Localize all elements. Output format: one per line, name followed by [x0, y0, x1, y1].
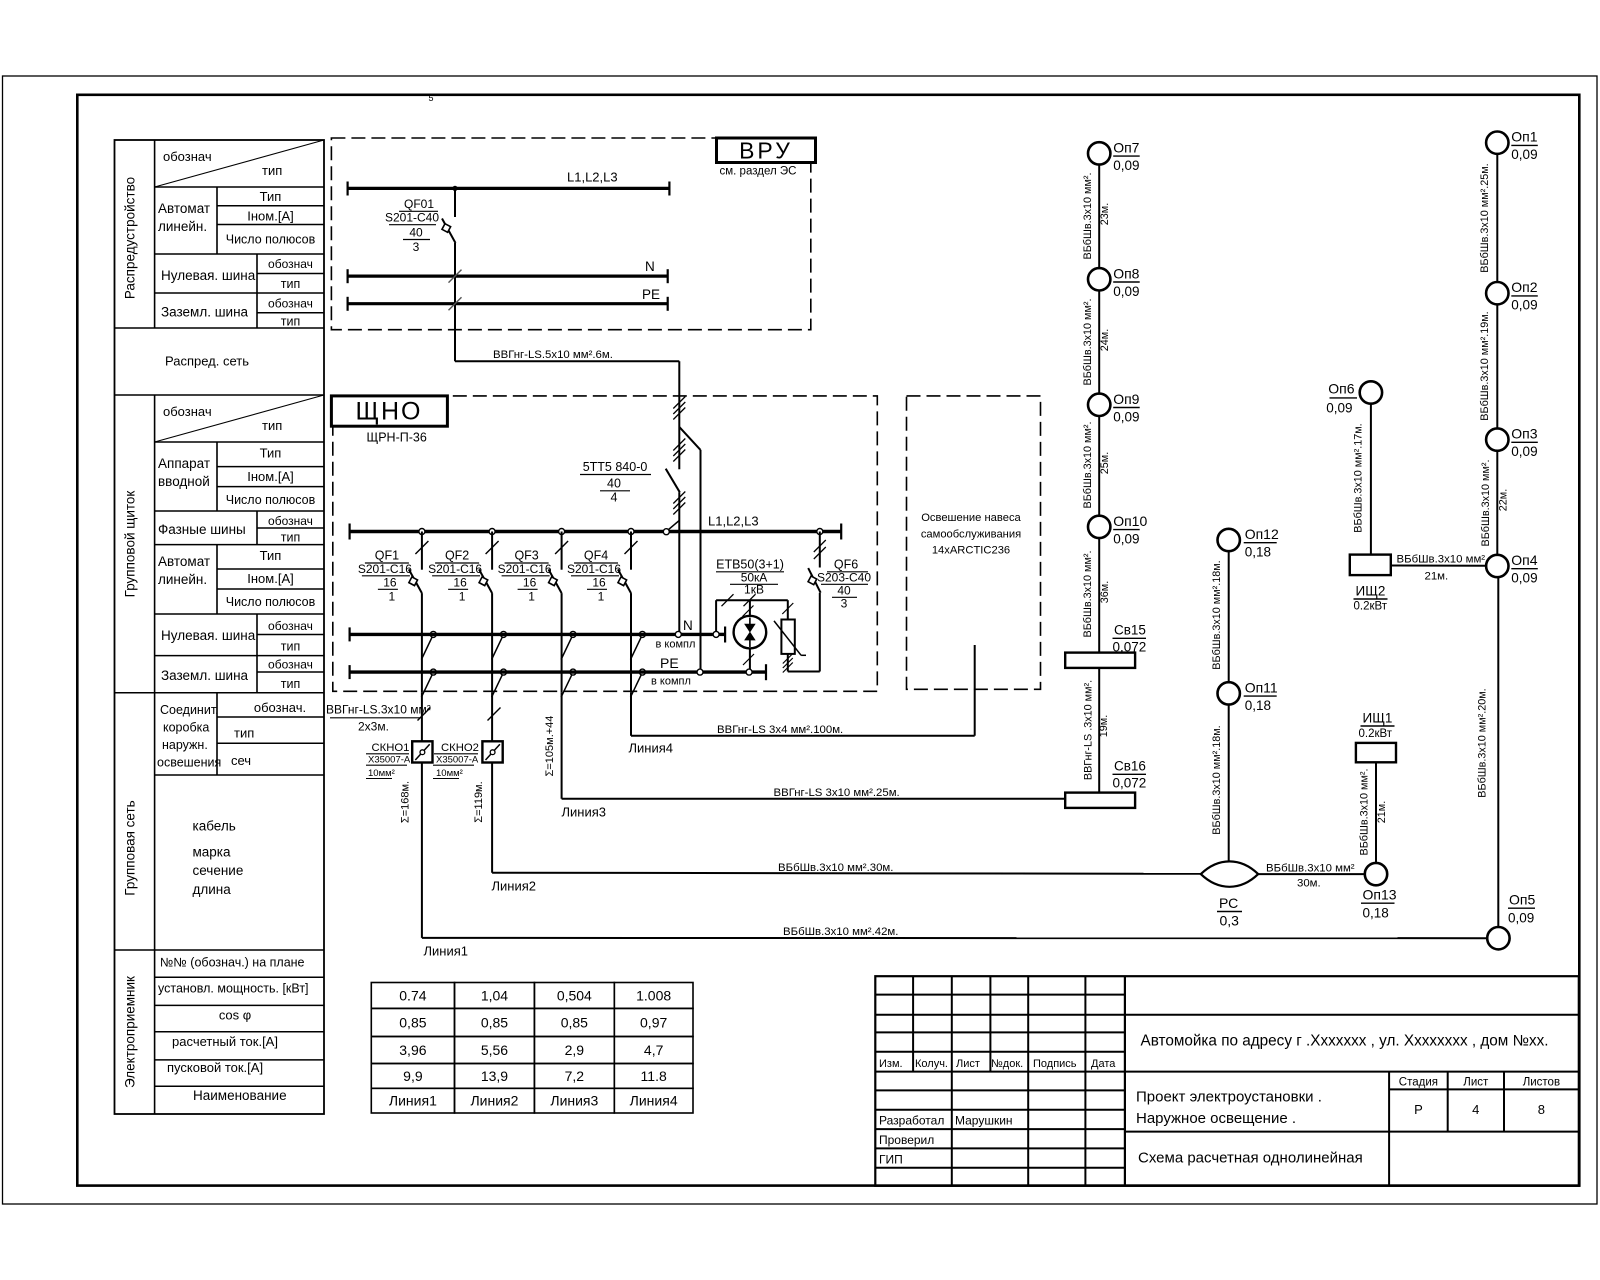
svg-text:наружн.: наружн. — [162, 738, 208, 752]
svg-text:0,09: 0,09 — [1326, 401, 1352, 416]
N tap diagonal QF4 — [631, 637, 642, 660]
breaker QF3 contact — [549, 569, 562, 593]
N tap node QF1 — [430, 631, 436, 637]
svg-text:0,072: 0,072 — [1113, 640, 1147, 655]
svg-text:обознач.: обознач. — [254, 700, 306, 715]
svg-text:QF01: QF01 — [404, 197, 434, 211]
svg-text:Линия4: Линия4 — [629, 741, 674, 756]
breaker QF01 wire upper — [454, 188, 456, 217]
svg-text:обознач: обознач — [268, 514, 313, 528]
wire PC to Op13 — [1258, 873, 1366, 875]
canopy lighting dashed box — [907, 396, 1041, 689]
varistor stem lower — [787, 654, 789, 672]
svg-text:40: 40 — [409, 226, 423, 240]
svg-text:тип: тип — [281, 277, 300, 291]
svg-text:ГИП: ГИП — [879, 1153, 903, 1167]
svg-text:0,504: 0,504 — [557, 987, 592, 1003]
chain A wires — [1098, 165, 1100, 269]
svg-text:0,3: 0,3 — [1220, 913, 1240, 929]
svg-text:Тип: Тип — [260, 189, 282, 204]
lamp Оп10 — [1088, 516, 1110, 538]
svg-text:СКНО2: СКНО2 — [441, 742, 479, 754]
wire Op6 to ISCH2 — [1370, 404, 1372, 555]
svg-text:30м.: 30м. — [1297, 878, 1321, 890]
N tap diagonal QF3 — [561, 637, 572, 660]
svg-text:тип: тип — [262, 418, 282, 433]
svg-text:обознач: обознач — [163, 149, 212, 164]
breaker QF6 wire lower — [819, 593, 821, 672]
svg-text:ВБбШв.3х10 мм².30м.: ВБбШв.3х10 мм².30м. — [778, 862, 893, 874]
svg-text:освешения: освешения — [157, 756, 221, 770]
svg-text:16: 16 — [592, 576, 606, 590]
junction box SKNO1 — [412, 741, 432, 762]
load values table — [371, 983, 454, 1009]
svg-text:Проверил: Проверил — [879, 1133, 934, 1147]
bus junction node 5TT5 — [663, 529, 669, 535]
svg-text:40: 40 — [607, 477, 621, 491]
varistor diagonal — [774, 621, 801, 655]
svg-text:ВВГнг-LS 3х4 мм².100м.: ВВГнг-LS 3х4 мм².100м. — [717, 724, 843, 736]
svg-text:ВБбШв.3х10 мм².: ВБбШв.3х10 мм². — [1082, 173, 1094, 260]
svg-text:Наименование: Наименование — [193, 1088, 287, 1103]
spark gap PE junction node — [746, 669, 752, 675]
svg-text:1: 1 — [598, 590, 605, 604]
breaker QF3 wire upper — [561, 532, 563, 570]
PE riser wire — [700, 450, 702, 672]
lamp Оп2 — [1486, 282, 1508, 304]
breaker QF1 contact — [409, 569, 422, 593]
svg-text:ETB50(3+1): ETB50(3+1) — [716, 558, 784, 572]
PE tap diagonal QF2 — [492, 674, 503, 697]
svg-text:ВБбШв.3х10 мм².19м.: ВБбШв.3х10 мм².19м. — [1479, 311, 1491, 420]
svg-text:Изм.: Изм. — [879, 1058, 903, 1070]
svg-text:Нулевая. шина: Нулевая. шина — [161, 268, 256, 283]
spark gap stem upper — [749, 600, 751, 616]
PE tap node QF3 — [570, 669, 576, 675]
svg-text:ВВГнг-LS .3х10 мм².: ВВГнг-LS .3х10 мм². — [1083, 680, 1095, 780]
svg-text:Св16: Св16 — [1114, 759, 1146, 774]
lamp Оп1 — [1486, 132, 1508, 154]
left table column line 2 — [216, 187, 218, 254]
svg-text:0,09: 0,09 — [1511, 147, 1537, 162]
svg-text:№док.: №док. — [991, 1058, 1023, 1070]
svg-text:Линия1: Линия1 — [424, 944, 469, 959]
svg-text:13,9: 13,9 — [481, 1068, 508, 1084]
svg-text:ВВГнг-LS.3х10 мм²: ВВГнг-LS.3х10 мм² — [326, 703, 431, 717]
svg-text:Σ=119м.: Σ=119м. — [473, 781, 485, 822]
svg-text:Распред. сеть: Распред. сеть — [165, 354, 249, 369]
svg-text:СКНО1: СКНО1 — [372, 742, 410, 754]
svg-text:Оп6: Оп6 — [1328, 381, 1354, 397]
svg-text:16: 16 — [383, 576, 397, 590]
spark gap mark lower — [743, 654, 754, 665]
svg-text:Стадия: Стадия — [1399, 1077, 1438, 1089]
left table column line — [154, 140, 156, 328]
svg-text:ВБбШв.3х10 мм².: ВБбШв.3х10 мм². — [1397, 554, 1489, 566]
svg-text:Линия4: Линия4 — [630, 1093, 678, 1109]
svg-text:N: N — [683, 618, 693, 633]
svg-text:2,9: 2,9 — [565, 1042, 585, 1058]
svg-text:0,18: 0,18 — [1245, 698, 1271, 713]
svg-text:5TT5 840-0: 5TT5 840-0 — [583, 460, 648, 474]
svg-text:16: 16 — [453, 576, 467, 590]
N tap diagonal QF1 — [421, 637, 432, 660]
PE tap node QF4 — [639, 669, 645, 675]
feed wire VRU to SCHNO horizontal — [455, 360, 679, 362]
svg-text:вводной: вводной — [158, 474, 210, 489]
group wire QF2 down — [491, 593, 493, 693]
svg-text:Число полюсов: Число полюсов — [226, 595, 316, 609]
svg-text:обознач: обознач — [268, 297, 313, 311]
breaker QF4 contact — [618, 569, 631, 593]
svg-text:40: 40 — [837, 584, 851, 598]
svg-text:L1,L2,L3: L1,L2,L3 — [567, 170, 618, 185]
svg-text:Оп7: Оп7 — [1113, 139, 1139, 155]
svg-text:Оп2: Оп2 — [1511, 279, 1537, 295]
svg-text:Оп5: Оп5 — [1509, 892, 1535, 908]
svg-text:тип: тип — [262, 163, 282, 178]
PE riser junction node — [697, 669, 703, 675]
svg-text:самообслуживания: самообслуживания — [921, 529, 1021, 541]
title block right rows — [1125, 1014, 1579, 1016]
svg-text:Оп8: Оп8 — [1113, 265, 1139, 281]
svg-text:0.2кВт: 0.2кВт — [1354, 601, 1388, 613]
svg-text:Лист: Лист — [1463, 1077, 1489, 1089]
chain D wires — [1496, 154, 1498, 282]
svg-text:0,09: 0,09 — [1113, 284, 1139, 299]
svg-text:5: 5 — [429, 93, 434, 103]
VRU title box — [717, 138, 816, 163]
svg-text:длина: длина — [193, 882, 232, 897]
svg-text:0,97: 0,97 — [640, 1014, 667, 1030]
svg-text:№№ (обознач.) на плане: №№ (обознач.) на плане — [160, 956, 305, 970]
svg-text:обознач: обознач — [268, 619, 313, 633]
svg-text:Автомат: Автомат — [158, 201, 210, 216]
svg-text:cos φ: cos φ — [219, 1008, 251, 1023]
svg-text:Листов: Листов — [1523, 1077, 1560, 1089]
left legend table outer — [115, 140, 325, 1114]
ETB50 top conductor mark 1 — [722, 594, 734, 606]
svg-text:Оп1: Оп1 — [1511, 129, 1537, 145]
svg-text:ВВГнг-LS 3х10 мм².25м.: ВВГнг-LS 3х10 мм².25м. — [774, 787, 900, 799]
wire Op11 to Op12 — [1228, 551, 1230, 682]
svg-text:пусковой ток.[А]: пусковой ток.[А] — [167, 1060, 263, 1075]
VRU dashed enclosure — [331, 138, 810, 330]
svg-text:обознач: обознач — [268, 257, 313, 271]
panel ISCH1 — [1356, 743, 1396, 762]
svg-text:Оп10: Оп10 — [1113, 513, 1147, 529]
bus tap node QF6 — [817, 529, 823, 535]
svg-text:0,09: 0,09 — [1113, 409, 1139, 424]
svg-text:в компл: в компл — [656, 639, 696, 651]
varistor body — [781, 620, 794, 654]
svg-text:ВБбШв.3х10 мм².18м.: ВБбШв.3х10 мм².18м. — [1211, 560, 1223, 669]
bus L1,L2,L3 (VRU) — [348, 187, 670, 190]
breaker QF2 pole mark — [486, 541, 499, 554]
contactor 5TT5 contact — [666, 469, 680, 493]
svg-text:Заземл. шина: Заземл. шина — [161, 668, 249, 683]
svg-text:22м.: 22м. — [1498, 489, 1510, 511]
lamp Op5 — [1487, 927, 1509, 949]
svg-text:Нулевая. шина: Нулевая. шина — [161, 628, 256, 643]
spark gap circle — [734, 616, 767, 649]
svg-text:кабель: кабель — [193, 819, 236, 834]
svg-text:36м.: 36м. — [1099, 581, 1111, 603]
svg-text:Соединит.: Соединит. — [160, 703, 219, 717]
QF01 crossing mark at PE — [449, 297, 462, 310]
svg-text:1: 1 — [528, 590, 535, 604]
line2 vertical wire — [491, 693, 493, 873]
N tap node QF3 — [570, 631, 576, 637]
svg-text:0.2кВт: 0.2кВт — [1359, 728, 1393, 740]
ETB50 N junction node — [713, 631, 719, 637]
svg-text:Iном.[А]: Iном.[А] — [247, 571, 293, 586]
line4 horizontal wire — [631, 735, 975, 737]
N tap node QF2 — [501, 631, 507, 637]
group wire QF3 down — [561, 593, 563, 693]
svg-text:0,09: 0,09 — [1511, 571, 1537, 586]
svg-text:24м.: 24м. — [1099, 329, 1111, 351]
svg-text:S201-C16: S201-C16 — [358, 562, 412, 576]
svg-text:Х35007-А: Х35007-А — [436, 755, 479, 766]
breaker QF6 contact — [808, 568, 820, 593]
svg-text:Заземл. шина: Заземл. шина — [161, 305, 249, 320]
lamp Оп9 — [1088, 394, 1110, 416]
svg-text:ВБбШв.3х10 мм².: ВБбШв.3х10 мм². — [1082, 299, 1094, 386]
bus tap node QF4 — [628, 529, 634, 535]
svg-text:Линия2: Линия2 — [470, 1093, 518, 1109]
breaker QF6 cable marks — [814, 540, 826, 552]
diagonal header section 1 — [155, 140, 324, 187]
spark gap arrows — [746, 618, 755, 648]
luminaire Sv15 — [1065, 653, 1135, 668]
line3 horizontal wire — [562, 798, 1066, 800]
svg-text:Дата: Дата — [1091, 1058, 1116, 1070]
varistor stem upper — [787, 600, 789, 619]
svg-text:1: 1 — [459, 590, 466, 604]
bus tap node QF3 — [559, 529, 565, 535]
svg-text:2х3м.: 2х3м. — [358, 720, 389, 734]
svg-text:коробка: коробка — [163, 721, 209, 735]
wire Sv15 to Sv16 — [1098, 668, 1100, 793]
svg-text:Оп3: Оп3 — [1511, 426, 1537, 442]
lamp Оп3 — [1486, 428, 1508, 450]
title block left rows — [875, 994, 1125, 996]
bus L1,L2,L3 (SCHNO) — [350, 530, 842, 533]
N tap diagonal QF2 — [492, 637, 503, 660]
svg-text:Линия3: Линия3 — [562, 805, 607, 820]
svg-text:ВБбШв.3х10 мм²: ВБбШв.3х10 мм² — [1266, 863, 1355, 875]
svg-text:Число полюсов: Число полюсов — [226, 493, 316, 507]
SCHNO dashed enclosure — [333, 396, 878, 691]
svg-text:Оп9: Оп9 — [1113, 391, 1139, 407]
left table row lines — [155, 186, 324, 188]
N riser junction node — [675, 631, 681, 637]
svg-text:4: 4 — [1472, 1102, 1479, 1117]
feed cable marks upper — [673, 397, 685, 409]
PE tap node QF2 — [501, 669, 507, 675]
PE branch diagonal — [679, 427, 700, 450]
bus tap node QF1 — [419, 529, 425, 535]
svg-text:ВБбШв.3х10 мм².: ВБбШв.3х10 мм². — [1082, 551, 1094, 638]
arrester ETB50 top conductor — [716, 599, 788, 601]
lamp Оп8 — [1088, 268, 1110, 290]
svg-text:ИЩ2: ИЩ2 — [1356, 584, 1386, 599]
svg-text:25м.: 25м. — [1099, 452, 1111, 474]
svg-text:S201-C40: S201-C40 — [385, 211, 439, 225]
svg-text:PE: PE — [660, 655, 679, 671]
svg-text:Схема расчетная однолинейная: Схема расчетная однолинейная — [1138, 1150, 1363, 1167]
PE tap node QF1 — [430, 669, 436, 675]
svg-text:Св15: Св15 — [1114, 623, 1146, 638]
N riser cable marks — [673, 492, 685, 504]
svg-text:Подпись: Подпись — [1033, 1058, 1077, 1070]
svg-text:21м.: 21м. — [1376, 801, 1388, 823]
stage table — [1388, 1072, 1390, 1186]
svg-text:1.008: 1.008 — [636, 987, 671, 1003]
svg-text:линейн.: линейн. — [158, 219, 207, 234]
junction box SKNO2 — [482, 741, 502, 762]
feed cable marks mid — [673, 439, 685, 451]
svg-text:ВБбШв.3х10 мм².: ВБбШв.3х10 мм². — [1480, 460, 1492, 547]
svg-text:Лист: Лист — [956, 1058, 980, 1070]
breaker QF6 wire upper — [819, 532, 821, 568]
svg-text:Колуч.: Колуч. — [915, 1058, 948, 1070]
luminaire Sv16 — [1065, 793, 1135, 808]
varistor to QF6 wire — [788, 671, 820, 673]
breaker QF01 wire lower — [454, 243, 456, 361]
svg-text:ВВГнг-LS.5х10 мм².6м.: ВВГнг-LS.5х10 мм².6м. — [493, 349, 613, 361]
breaker QF4 pole mark — [625, 541, 638, 554]
svg-text:3: 3 — [841, 597, 848, 611]
diagonal header section 2 — [155, 395, 324, 442]
svg-text:РС: РС — [1219, 895, 1238, 911]
svg-text:QF6: QF6 — [834, 558, 858, 572]
N riser wire — [678, 492, 680, 634]
line4 vertical wire — [630, 693, 632, 736]
bus tap diagonal 5TT5 — [667, 521, 679, 531]
PE tap diagonal QF1 — [421, 674, 432, 697]
svg-text:тип: тип — [281, 677, 300, 691]
svg-text:Распредустройство: Распредустройство — [123, 177, 138, 299]
svg-text:ИЩ1: ИЩ1 — [1363, 711, 1393, 726]
line1 cable mark — [418, 708, 431, 721]
svg-text:Х35007-А: Х35007-А — [368, 755, 411, 766]
svg-text:тип: тип — [281, 531, 300, 545]
svg-text:S201-C16: S201-C16 — [498, 562, 552, 576]
svg-text:L1,L2,L3: L1,L2,L3 — [708, 514, 759, 529]
svg-text:тип: тип — [281, 315, 300, 329]
svg-text:ВБбШв.3х10 мм².25м.: ВБбШв.3х10 мм².25м. — [1479, 163, 1491, 272]
svg-text:0,85: 0,85 — [481, 1014, 508, 1030]
svg-text:Освешение навеса: Освешение навеса — [921, 512, 1021, 524]
lamp Op13 — [1365, 863, 1387, 885]
svg-text:обознач: обознач — [268, 658, 313, 672]
varistor mark lower — [783, 654, 793, 664]
svg-text:Iном.[А]: Iном.[А] — [247, 209, 293, 224]
svg-text:0.74: 0.74 — [399, 987, 426, 1003]
svg-text:Оп4: Оп4 — [1511, 552, 1537, 568]
svg-text:3,96: 3,96 — [399, 1042, 426, 1058]
svg-text:Число полюсов: Число полюсов — [226, 233, 316, 247]
lamp Оп7 — [1088, 142, 1110, 164]
N tap node QF4 — [639, 631, 645, 637]
line3 vertical wire — [561, 693, 563, 799]
spark gap mark upper — [743, 606, 754, 617]
svg-text:23м.: 23м. — [1099, 203, 1111, 225]
ETB50 left leg to N — [715, 600, 717, 631]
panel ISCH2 — [1350, 555, 1391, 576]
svg-text:ВБбШв.3х10 мм².: ВБбШв.3х10 мм². — [1082, 422, 1094, 509]
svg-text:10мм²: 10мм² — [368, 768, 395, 779]
svg-text:1кВ: 1кВ — [744, 583, 764, 597]
svg-text:Σ=168м.: Σ=168м. — [400, 781, 412, 823]
varistor mark upper — [782, 603, 793, 614]
lamp Оп4 — [1486, 555, 1508, 577]
bus tap node QF2 — [489, 529, 495, 535]
svg-text:ЩНО: ЩНО — [356, 398, 423, 426]
svg-text:1: 1 — [389, 590, 396, 604]
wire PC to Op11 — [1228, 705, 1230, 862]
svg-text:Тип: Тип — [260, 548, 282, 563]
svg-text:10мм²: 10мм² — [436, 768, 463, 779]
svg-text:Линия2: Линия2 — [492, 879, 537, 894]
QF01 crossing mark at N — [449, 270, 462, 283]
svg-text:PE: PE — [642, 287, 660, 302]
svg-text:Σ=105м.+44: Σ=105м.+44 — [544, 716, 556, 777]
svg-text:ВРУ: ВРУ — [739, 138, 793, 164]
svg-text:Групповая сеть: Групповая сеть — [123, 800, 138, 895]
svg-text:Наружное освещение .: Наружное освещение . — [1136, 1110, 1296, 1127]
svg-text:ВБбШв.3х10 мм².17м.: ВБбШв.3х10 мм².17м. — [1353, 423, 1365, 532]
svg-text:Разработал: Разработал — [879, 1114, 944, 1128]
svg-text:N: N — [645, 259, 655, 274]
svg-text:ЩРН-П-36: ЩРН-П-36 — [367, 431, 427, 445]
svg-text:Автомат: Автомат — [158, 554, 210, 569]
svg-text:4,7: 4,7 — [644, 1042, 664, 1058]
svg-text:QF4: QF4 — [584, 549, 608, 563]
breaker QF2 wire upper — [491, 532, 493, 570]
svg-text:QF1: QF1 — [375, 549, 399, 563]
svg-text:Оп12: Оп12 — [1245, 526, 1279, 542]
breaker QF2 contact — [479, 569, 492, 593]
group wire QF1 down — [421, 593, 423, 693]
svg-text:Оп11: Оп11 — [1245, 679, 1278, 695]
svg-text:Iном.[А]: Iном.[А] — [247, 469, 293, 484]
svg-text:сечение: сечение — [193, 863, 244, 878]
splice PC ellipse — [1201, 861, 1258, 886]
lamp Op12 — [1218, 529, 1240, 551]
left table column line 3 — [256, 254, 258, 328]
svg-text:Аппарат: Аппарат — [158, 456, 210, 471]
svg-text:тип: тип — [281, 640, 300, 654]
breaker QF3 pole mark — [555, 541, 568, 554]
group wire QF4 down — [630, 593, 632, 693]
lamp Op11 — [1218, 682, 1240, 704]
svg-text:4: 4 — [611, 491, 618, 505]
svg-text:7,2: 7,2 — [565, 1068, 585, 1084]
svg-text:1,04: 1,04 — [481, 987, 508, 1003]
svg-text:Проект электроустановки .: Проект электроустановки . — [1136, 1089, 1322, 1106]
svg-text:Линия1: Линия1 — [389, 1093, 437, 1109]
bus N (SCHNO) — [350, 633, 713, 636]
svg-text:Р: Р — [1414, 1102, 1423, 1117]
wire ISCH2 to Op4 — [1391, 565, 1486, 567]
svg-text:ВБбШв.3х10 мм².18м.: ВБбШв.3х10 мм².18м. — [1211, 725, 1223, 834]
svg-text:линейн.: линейн. — [158, 572, 207, 587]
svg-text:Тип: Тип — [260, 446, 282, 461]
svg-text:марка: марка — [193, 845, 232, 860]
